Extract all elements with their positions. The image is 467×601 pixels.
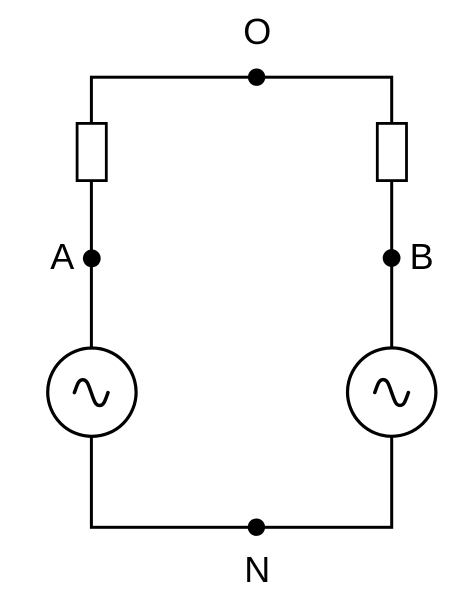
svg-text:N: N bbox=[244, 549, 270, 590]
svg-text:A: A bbox=[50, 236, 74, 277]
svg-text:O: O bbox=[243, 11, 271, 52]
svg-text:B: B bbox=[410, 236, 434, 277]
